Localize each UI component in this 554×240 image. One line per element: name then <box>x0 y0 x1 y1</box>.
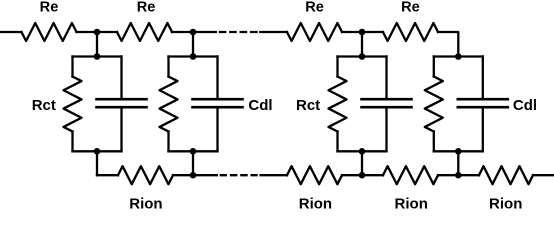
wire: block 2 top bar <box>169 55 218 57</box>
wire: bottom dashed continuation <box>220 174 258 176</box>
wire: block 2 bottom bar <box>169 150 218 152</box>
wire: node J1 drop to block 1 top bar <box>96 32 98 57</box>
wire: block 4 Rct top stub <box>433 57 435 77</box>
wire: block 2 Cdl top lead <box>216 57 218 99</box>
resistor Rion #2 <box>287 166 342 184</box>
junction: block 3 top bar <box>359 53 366 60</box>
capacitor Cdl (block 2) <box>193 99 243 107</box>
wire: block 3 Cdl bottom lead <box>385 108 387 151</box>
junction: block 1 bottom bar <box>94 148 101 155</box>
svg-text:Rion: Rion <box>489 196 522 210</box>
wire: dashes to Re3 <box>260 31 287 33</box>
resistor Re #3 <box>287 23 342 41</box>
wire: block 4 Cdl top lead <box>482 57 484 99</box>
wire: block 1 drop to bottom rail <box>96 151 98 175</box>
wire: block 4 Rct bottom stub <box>433 132 435 152</box>
capacitor Cdl (block 3) <box>362 99 412 107</box>
resistor Rion #3 <box>383 166 438 184</box>
svg-text:Rct: Rct <box>32 97 56 114</box>
node J2 (top rail, block 2) <box>190 29 197 36</box>
wire: bottom rail start (block1 corner) <box>97 174 118 176</box>
wire: dashes to Rion2 <box>261 174 287 176</box>
wire: Re1 to node J1 <box>77 31 98 33</box>
resistor Re #1 <box>22 23 77 41</box>
capacitor Cdl (block 4) <box>458 99 508 107</box>
wire: block 4 bottom bar <box>434 150 483 152</box>
wire: top-left stub <box>1 31 22 33</box>
wire: block 3 Rct top stub <box>336 57 338 77</box>
wire: Re3 to node J3 <box>342 31 362 33</box>
svg-text:Cdl: Cdl <box>248 97 272 114</box>
svg-text:Rion: Rion <box>395 196 428 210</box>
junction: block 2 top bar <box>190 53 197 60</box>
wire: Rion3 to node B4 <box>438 174 458 176</box>
node J1 (top rail, block 1) <box>94 29 101 36</box>
wire: block 3 Rct bottom stub <box>336 132 338 152</box>
node B2 (bottom rail, block 2) <box>190 172 197 179</box>
wire: node J3 to Re4 <box>362 31 383 33</box>
resistor Rct (block 1) <box>64 77 82 132</box>
wire: Re2 to node J2 <box>172 31 193 33</box>
junction: block 3 bottom bar <box>359 148 366 155</box>
wire: block 2 drop to bottom rail <box>192 151 194 175</box>
svg-text:Re: Re <box>40 0 59 15</box>
svg-text:Cdl: Cdl <box>513 97 537 114</box>
wire: node J3 drop to block 3 top bar <box>361 32 363 57</box>
wire: Rion2 to node B3 <box>342 174 362 176</box>
wire: block 1 Rct top stub <box>71 57 73 77</box>
svg-text:Re: Re <box>305 0 324 15</box>
wire: block 3 drop to bottom rail <box>361 151 363 175</box>
wire: block 1 Cdl bottom lead <box>120 108 122 151</box>
wire: block 1 Rct bottom stub <box>71 132 73 152</box>
svg-text:Re: Re <box>401 0 420 15</box>
wire: node J2 drop to block 2 top bar <box>192 32 194 57</box>
junction: block 2 bottom bar <box>190 148 197 155</box>
wire: Rion1 to node B2 <box>173 174 193 176</box>
wire: block 4 drop to bottom rail <box>457 151 459 175</box>
wire: block 3 top bar <box>338 55 387 57</box>
wire: block 2 Rct top stub <box>167 57 169 77</box>
wire: node B4 to Rion4 <box>458 174 479 176</box>
wire: block 3 Cdl top lead <box>385 57 387 99</box>
wire: top dashed continuation <box>219 31 258 33</box>
junction: block 1 top bar <box>94 53 101 60</box>
junction: block 4 top bar <box>455 53 462 60</box>
wire: bottom-right stub <box>533 174 553 176</box>
svg-text:Re: Re <box>137 0 156 15</box>
wire: node J2 rightward <box>193 31 216 33</box>
wire: block 1 bottom bar <box>73 150 122 152</box>
wire: node J1 to Re2 <box>97 31 117 33</box>
wire: node B3 to Rion3 <box>362 174 383 176</box>
wire: block 4 Cdl bottom lead <box>482 108 484 151</box>
capacitor Cdl (block 1) <box>97 99 147 107</box>
resistor Rct (block 3) <box>329 77 347 132</box>
wire: node B2 rightward <box>193 174 217 176</box>
svg-text:Rion: Rion <box>129 196 162 210</box>
junction: block 4 bottom bar <box>455 148 462 155</box>
resistor Re #4 <box>383 23 438 41</box>
wire: block 2 Rct bottom stub <box>167 132 169 152</box>
svg-text:Rion: Rion <box>299 196 332 210</box>
resistor Rion #4 <box>479 166 533 184</box>
node B3 (bottom rail, block 3) <box>359 172 366 179</box>
node B4 (bottom rail, block 4) <box>455 172 462 179</box>
wire: block 1 Cdl top lead <box>120 57 122 99</box>
resistor Rion #1 <box>118 166 173 184</box>
wire: block 2 Cdl bottom lead <box>216 108 218 151</box>
wire: block 3 bottom bar <box>338 150 387 152</box>
wire: Re4 to top-right corner, down into block 4 <box>438 32 458 57</box>
svg-text:Rct: Rct <box>296 97 320 114</box>
resistor Rct (block 4) <box>425 77 443 132</box>
resistor Re #2 <box>117 23 172 41</box>
node J3 (top rail, block 3) <box>359 29 366 36</box>
wire: block 4 top bar <box>434 55 483 57</box>
resistor Rct (block 2) <box>160 77 178 132</box>
wire: block 1 top bar <box>73 55 122 57</box>
